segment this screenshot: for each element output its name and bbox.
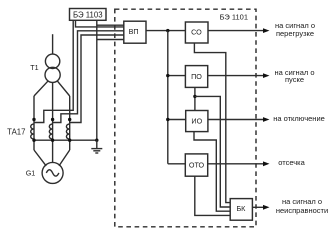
node bus ИО — [166, 118, 169, 121]
wire CT1 secondary to БЭ 1103 — [34, 20, 73, 122]
block СО — [185, 22, 208, 43]
svg-text:ПО: ПО — [191, 72, 202, 81]
wire СО to БК — [194, 43, 230, 203]
wire common to ВП input 1 — [97, 24, 124, 26]
wire ПО output arrow — [208, 73, 270, 78]
wire ОТО output arrow — [208, 161, 270, 166]
node phase B top — [51, 118, 54, 121]
block БЭ 1103 — [70, 9, 107, 21]
node bus ПО — [166, 74, 169, 77]
svg-text:ВП: ВП — [129, 27, 139, 36]
svg-text:G1: G1 — [26, 168, 36, 177]
wire neutral line — [34, 139, 97, 141]
generator G1 — [26, 150, 70, 183]
svg-text:БЭ 1103: БЭ 1103 — [73, 10, 103, 19]
block ПО — [185, 66, 207, 88]
svg-text:СО: СО — [191, 28, 202, 37]
current transformer TA2 winding — [49, 124, 52, 139]
block ВП — [124, 21, 146, 43]
wire CT2 secondary to ВП input 3 — [53, 31, 124, 123]
wire phase C — [69, 96, 71, 150]
node phase A bottom — [32, 139, 35, 142]
block ИО — [186, 111, 208, 132]
wire ОТО to БК — [195, 176, 230, 215]
svg-text:БЭ 1101: БЭ 1101 — [220, 13, 248, 22]
node phase C bottom — [68, 139, 71, 142]
svg-text:на отключение: на отключение — [273, 114, 325, 123]
wire ПО to БК — [195, 96, 230, 207]
wire БК output arrow — [252, 205, 269, 210]
svg-text:перегрузке: перегрузке — [276, 29, 314, 38]
ground — [91, 140, 102, 153]
current transformer TA3 winding — [66, 124, 69, 139]
node neutral-ground junction — [95, 139, 98, 142]
wire phase B — [52, 96, 54, 150]
svg-text:Т1: Т1 — [30, 63, 38, 72]
node phase B bottom — [51, 139, 54, 142]
svg-text:пуске: пуске — [285, 75, 304, 84]
wire ИО output arrow — [208, 117, 270, 122]
svg-text:ИО: ИО — [191, 117, 202, 126]
wire ИО to БК — [194, 132, 230, 212]
svg-text:на сигнал о: на сигнал о — [282, 197, 322, 206]
wire T1 fan-out to phases — [34, 81, 70, 96]
block ОТО — [185, 154, 207, 176]
svg-text:отсечка: отсечка — [278, 158, 305, 167]
node phase C top — [68, 118, 71, 121]
wire ПО to ИО — [194, 87, 196, 110]
wire bus to ПО — [168, 75, 186, 77]
wire phase A — [33, 96, 35, 150]
svg-text:БК: БК — [236, 204, 246, 213]
wire БЭ 1103 to ВП input 2 — [76, 20, 124, 27]
node phase A top — [32, 118, 35, 121]
wire input bus — [167, 31, 169, 164]
wire CT3 secondary to ВП input 4 — [70, 35, 124, 123]
wire common to ВП input 5 — [97, 39, 124, 41]
node ПО branch — [193, 95, 196, 98]
svg-text:ОТО: ОТО — [189, 161, 205, 170]
svg-text:ТА17: ТА17 — [7, 127, 25, 136]
current transformer TA1 winding — [31, 124, 34, 139]
wire bus to ОТО — [168, 163, 186, 165]
wire bus to ИО — [168, 119, 186, 121]
wire ВП output to СО input — [146, 30, 185, 32]
dashed enclosure БЭ 1101 — [115, 9, 256, 227]
wire common riser БЭ 1103 to ground line — [96, 20, 98, 140]
wire СО output arrow — [208, 28, 270, 33]
node bus top — [166, 29, 169, 32]
transformer T1 — [30, 34, 60, 82]
svg-text:неисправности: неисправности — [276, 206, 328, 215]
block БК — [230, 199, 252, 221]
